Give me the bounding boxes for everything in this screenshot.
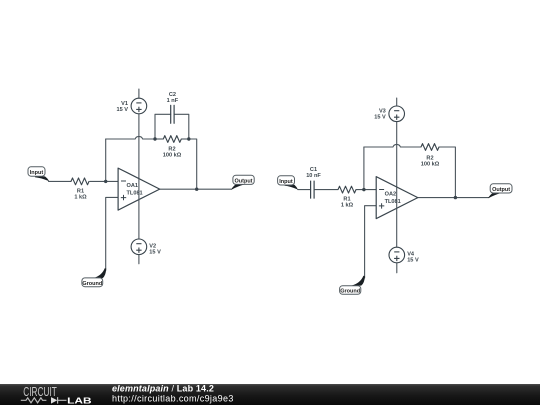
voltage source V4 stub — [396, 263, 398, 273]
capacitor C1 — [311, 181, 315, 199]
op-amp U2 plus symbol — [379, 203, 384, 208]
junction node C2 right — [187, 137, 190, 140]
op-amp U2 minus symbol — [379, 189, 384, 191]
wire C1 to R1 — [314, 189, 338, 191]
supply wire segment inside op-amp — [396, 187, 398, 209]
resistor R1 right — [338, 186, 356, 193]
op-amp U1 triangle — [118, 168, 160, 210]
wire feedback left vertical — [105, 139, 107, 181]
wire Input to C1 — [298, 189, 311, 191]
wire op-amp output — [418, 197, 488, 199]
svg-text:10 nF: 10 nF — [306, 173, 321, 179]
supply wire V1 through op-amp to V2 — [138, 114, 140, 239]
resistor R2 right — [421, 144, 439, 151]
svg-text:http://circuitlab.com/c9ja9e3: http://circuitlab.com/c9ja9e3 — [112, 393, 234, 403]
voltage source V4 — [389, 247, 405, 263]
wire feedback right down to output — [189, 139, 197, 189]
junction node R1/feedback — [104, 180, 107, 183]
wire plus input to ground — [365, 206, 377, 278]
logo resistor squiggle and diode — [21, 397, 67, 404]
svg-text:Output: Output — [234, 179, 252, 185]
svg-text:TL081: TL081 — [127, 191, 143, 197]
wire plus input to ground — [106, 197, 118, 270]
svg-text:TL081: TL081 — [385, 199, 401, 205]
supply wire segment inside op-amp — [138, 179, 140, 201]
resistor R1 — [71, 178, 89, 185]
junction node output — [195, 188, 198, 191]
voltage source V3 stub — [396, 98, 398, 106]
svg-text:Input: Input — [279, 179, 293, 185]
svg-text:1 nF: 1 nF — [167, 98, 179, 104]
svg-text:OA2: OA2 — [385, 192, 397, 198]
svg-text:1 kΩ: 1 kΩ — [74, 195, 87, 201]
svg-text:15 V: 15 V — [407, 258, 419, 264]
wire feedback top with hop over supply — [106, 136, 155, 139]
svg-text:Ground: Ground — [82, 281, 102, 287]
svg-text:CIRCUIT: CIRCUIT — [23, 385, 57, 399]
resistor R2 — [155, 136, 189, 143]
svg-text:LAB: LAB — [67, 395, 91, 405]
logo diode triangle — [51, 397, 57, 404]
op-amp U2 triangle — [376, 177, 418, 219]
svg-text:R1: R1 — [343, 197, 350, 203]
flag Output right — [488, 184, 512, 198]
junction node R1/feedback right — [362, 188, 365, 191]
svg-text:R2: R2 — [168, 146, 175, 152]
voltage source V2 stub — [138, 255, 140, 264]
wire feedback right down to output — [439, 147, 455, 198]
svg-text:OA1: OA1 — [127, 183, 139, 189]
wire feedback top with hop over supply — [364, 144, 421, 147]
flag Output left — [231, 175, 254, 190]
wire R1 to op-amp minus input — [356, 189, 376, 191]
voltage source V1 stub — [138, 89, 140, 98]
flag Input right — [278, 176, 298, 190]
wire R1 to op-amp minus input — [90, 180, 118, 182]
voltage source V1 — [131, 98, 147, 114]
svg-text:15 V: 15 V — [116, 107, 128, 113]
junction node output right — [454, 196, 457, 199]
wire op-amp output — [160, 188, 231, 190]
flag Ground left — [82, 268, 106, 287]
svg-text:R2: R2 — [426, 155, 433, 161]
svg-text:100 kΩ: 100 kΩ — [421, 162, 440, 168]
svg-text:15 V: 15 V — [149, 249, 161, 255]
op-amp U1 minus symbol — [121, 180, 126, 182]
svg-text:Ground: Ground — [340, 289, 360, 295]
svg-text:elemntalpain / Lab 14.2: elemntalpain / Lab 14.2 — [112, 383, 214, 393]
svg-text:Input: Input — [30, 170, 44, 176]
svg-text:1 kΩ: 1 kΩ — [341, 203, 354, 209]
voltage source V3 — [389, 106, 405, 122]
flag Ground right — [340, 276, 365, 295]
svg-text:Output: Output — [492, 187, 510, 193]
op-amp U1 plus symbol — [121, 195, 126, 200]
wire feedback left vertical — [363, 147, 365, 190]
flag Input left — [28, 167, 49, 182]
junction node C2 left — [153, 137, 156, 140]
svg-text:R1: R1 — [77, 188, 84, 194]
voltage source V2 — [131, 239, 147, 255]
supply wire V3 through op-amp to V4 — [396, 122, 398, 248]
capacitor C2 — [171, 105, 174, 123]
svg-text:100 kΩ: 100 kΩ — [163, 153, 182, 159]
wire C2 branch box — [155, 114, 189, 139]
svg-text:15 V: 15 V — [374, 115, 386, 121]
wire Input to R1 — [49, 180, 72, 182]
